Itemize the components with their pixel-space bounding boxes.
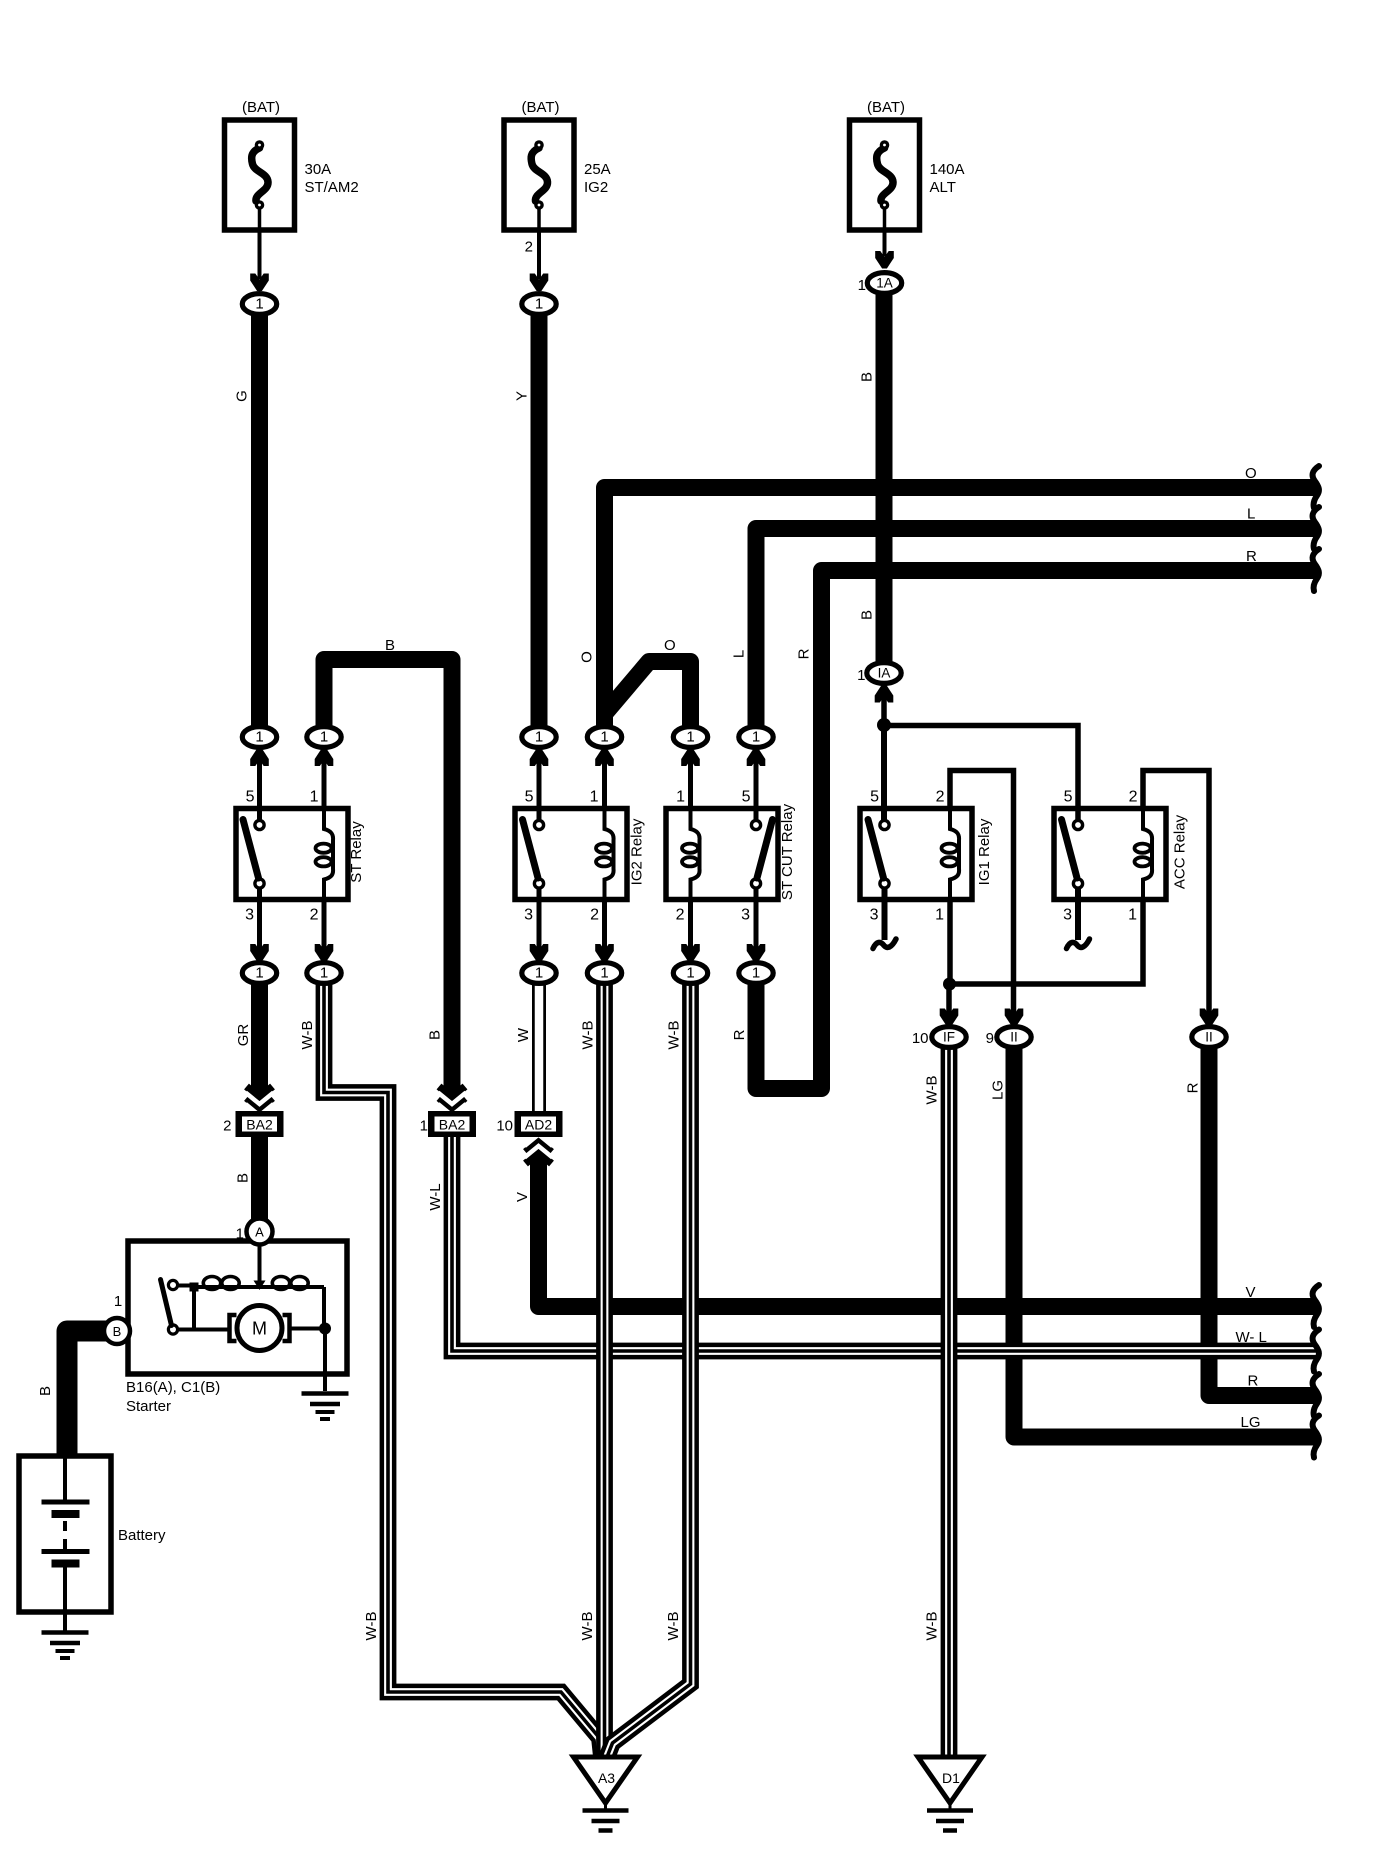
svg-text:1: 1 (535, 965, 543, 982)
svg-text:1: 1 (310, 789, 319, 806)
svg-text:IA: IA (878, 666, 891, 681)
svg-text:2: 2 (525, 239, 533, 256)
svg-text:1: 1 (600, 729, 608, 746)
svg-text:1: 1 (535, 729, 543, 746)
svg-text:1: 1 (857, 667, 865, 684)
svg-text:BA2: BA2 (246, 1117, 273, 1133)
svg-text:25A: 25A (584, 161, 611, 178)
svg-text:W-B: W-B (924, 1076, 941, 1105)
svg-text:3: 3 (524, 907, 533, 924)
svg-text:B: B (427, 1030, 444, 1040)
svg-text:M: M (252, 1319, 267, 1339)
svg-text:2: 2 (1129, 789, 1138, 806)
svg-text:2: 2 (676, 907, 685, 924)
svg-text:ST/AM2: ST/AM2 (305, 179, 359, 196)
svg-text:LG: LG (990, 1080, 1007, 1100)
svg-text:W- L: W- L (1236, 1329, 1267, 1346)
svg-text:2: 2 (936, 789, 945, 806)
svg-text:O: O (579, 651, 596, 663)
svg-text:2: 2 (223, 1118, 231, 1135)
svg-text:Y: Y (514, 391, 531, 401)
svg-text:1: 1 (752, 965, 760, 982)
svg-text:140A: 140A (930, 161, 965, 178)
svg-text:1: 1 (255, 965, 263, 982)
svg-text:O: O (664, 637, 676, 654)
svg-text:R: R (1185, 1082, 1202, 1093)
svg-text:ALT: ALT (930, 179, 956, 196)
svg-text:R: R (796, 648, 813, 659)
svg-text:A: A (255, 1225, 264, 1240)
svg-text:V: V (1246, 1284, 1256, 1301)
svg-text:LG: LG (1241, 1414, 1261, 1431)
svg-text:1: 1 (935, 907, 944, 924)
svg-text:B: B (859, 372, 876, 382)
svg-text:10: 10 (912, 1030, 929, 1047)
svg-text:2: 2 (590, 907, 599, 924)
svg-text:5: 5 (742, 789, 751, 806)
svg-text:3: 3 (741, 907, 750, 924)
svg-text:W-B: W-B (924, 1612, 941, 1641)
svg-text:1: 1 (1128, 907, 1137, 924)
svg-text:W-B: W-B (580, 1021, 597, 1050)
svg-text:1: 1 (114, 1293, 122, 1310)
svg-text:(BAT): (BAT) (867, 99, 905, 116)
svg-text:R: R (1246, 548, 1257, 565)
svg-text:W-B: W-B (665, 1612, 682, 1641)
svg-text:5: 5 (1064, 789, 1073, 806)
svg-text:Starter: Starter (126, 1398, 171, 1415)
svg-text:1: 1 (686, 729, 694, 746)
svg-text:O: O (1245, 465, 1257, 482)
svg-text:B: B (859, 610, 876, 620)
svg-text:G: G (234, 390, 251, 402)
svg-text:1: 1 (255, 729, 263, 746)
svg-text:1: 1 (255, 296, 263, 313)
svg-text:W-B: W-B (666, 1021, 683, 1050)
svg-text:GR: GR (235, 1024, 252, 1047)
svg-text:3: 3 (1063, 907, 1072, 924)
svg-text:R: R (731, 1029, 748, 1040)
svg-text:1: 1 (752, 729, 760, 746)
svg-text:1A: 1A (876, 276, 893, 291)
svg-text:B: B (235, 1173, 252, 1183)
svg-text:(BAT): (BAT) (521, 99, 559, 116)
svg-text:A3: A3 (598, 1770, 615, 1786)
svg-text:10: 10 (496, 1118, 513, 1135)
svg-text:B: B (385, 637, 395, 654)
svg-text:1: 1 (686, 965, 694, 982)
svg-text:II: II (1205, 1030, 1213, 1045)
svg-text:1: 1 (600, 965, 608, 982)
svg-text:1: 1 (858, 277, 866, 294)
svg-text:1: 1 (320, 729, 328, 746)
svg-text:5: 5 (246, 789, 255, 806)
svg-text:B: B (113, 1324, 122, 1339)
svg-text:3: 3 (245, 907, 254, 924)
svg-text:1: 1 (236, 1226, 244, 1243)
svg-text:L: L (731, 650, 748, 658)
svg-text:IG2: IG2 (584, 179, 608, 196)
svg-text:L: L (1247, 506, 1255, 523)
svg-text:ACC Relay: ACC Relay (1172, 814, 1189, 889)
svg-text:R: R (1248, 1373, 1259, 1390)
svg-text:W: W (515, 1027, 532, 1042)
svg-text:B: B (37, 1386, 54, 1396)
svg-text:BA2: BA2 (439, 1117, 466, 1133)
svg-text:1: 1 (320, 965, 328, 982)
svg-text:W-B: W-B (579, 1612, 596, 1641)
svg-text:W-B: W-B (363, 1612, 380, 1641)
svg-text:1: 1 (535, 296, 543, 313)
svg-text:5: 5 (870, 789, 879, 806)
svg-text:AD2: AD2 (525, 1117, 552, 1133)
svg-text:5: 5 (525, 789, 534, 806)
svg-text:1: 1 (420, 1118, 428, 1135)
svg-text:B16(A), C1(B): B16(A), C1(B) (126, 1379, 220, 1396)
svg-text:IG2 Relay: IG2 Relay (629, 818, 646, 885)
svg-text:D1: D1 (942, 1770, 960, 1786)
svg-text:1: 1 (676, 789, 685, 806)
svg-text:2: 2 (310, 907, 319, 924)
svg-text:ST Relay: ST Relay (348, 821, 365, 883)
svg-text:IF: IF (943, 1030, 955, 1045)
svg-text:ST CUT Relay: ST CUT Relay (779, 803, 796, 900)
svg-text:W-L: W-L (427, 1183, 444, 1210)
svg-text:1: 1 (590, 789, 599, 806)
svg-text:Battery: Battery (118, 1527, 166, 1544)
svg-text:W-B: W-B (299, 1021, 316, 1050)
svg-text:II: II (1010, 1030, 1018, 1045)
svg-text:9: 9 (986, 1030, 994, 1047)
svg-text:30A: 30A (305, 161, 332, 178)
svg-text:IG1 Relay: IG1 Relay (976, 818, 993, 885)
svg-text:3: 3 (870, 907, 879, 924)
svg-text:(BAT): (BAT) (242, 99, 280, 116)
svg-text:V: V (514, 1192, 531, 1202)
